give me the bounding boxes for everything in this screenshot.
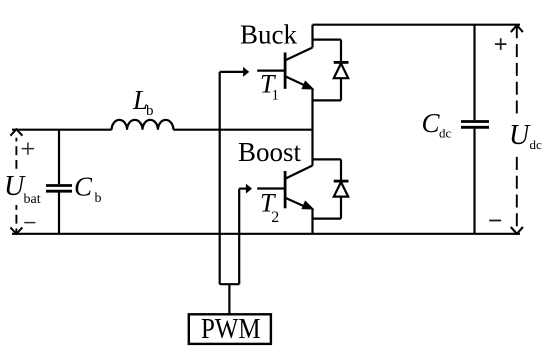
wire: PWM lead xyxy=(228,284,230,314)
T2 gate arrowhead xyxy=(246,184,252,194)
transistor Q1 (T1) emitter diagonal xyxy=(285,76,305,85)
PWM block box xyxy=(189,314,271,344)
wire: T2 gate arrow shaft xyxy=(239,188,246,190)
plus sign (dc link) xyxy=(495,38,507,50)
diode D1 cathode lead xyxy=(340,40,342,63)
wire: gate bus right (PWM to T2 gate) xyxy=(238,189,240,285)
transistor Q1 (T1) emitter arrowhead xyxy=(302,82,312,89)
node: DC-link voltage indicator dashed line (U_dc) xyxy=(516,25,518,234)
wire: T2 collector vertical xyxy=(311,130,313,166)
svg-text:Boost: Boost xyxy=(238,137,302,167)
minus sign (dc link) xyxy=(489,220,501,222)
U_dc indicator down arrowhead xyxy=(511,227,523,234)
transistor Q2 (T2) base bar xyxy=(284,171,287,208)
transistor Q1 (T1) collector diagonal xyxy=(285,48,312,61)
transistor Q2 (T2) emitter diagonal xyxy=(285,198,305,207)
svg-text:U: U xyxy=(509,120,531,151)
transistor Q1 (T1) base lead xyxy=(257,69,285,71)
wire: gate bus left (PWM to T1 gate) xyxy=(219,72,221,284)
diode D1 triangle xyxy=(334,63,348,78)
svg-text:1: 1 xyxy=(272,88,280,104)
svg-text:dc: dc xyxy=(530,137,543,152)
U_bat indicator up arrowhead xyxy=(10,129,22,136)
capacitor C2 (Cdc) plates xyxy=(461,122,489,128)
svg-text:2: 2 xyxy=(271,209,279,226)
wire: middle rail right segment (inductor to half-bridge midpoint) xyxy=(173,129,312,131)
wire: gate bus bottom connector xyxy=(220,283,240,285)
diode D2 bottom branch wire xyxy=(313,218,342,220)
diode D1 bottom branch wire xyxy=(313,99,342,101)
svg-text:Buck: Buck xyxy=(240,20,297,50)
diode D2 anode lead xyxy=(340,197,342,219)
svg-text:C: C xyxy=(422,108,441,138)
capacitor C1 (Cb) plates xyxy=(46,186,72,192)
wire: bottom rail (- bus) xyxy=(12,233,520,235)
capacitor C1 (Cb) bottom lead xyxy=(58,193,60,234)
wire: top rail (+ bus) xyxy=(313,24,521,26)
U_dc label background xyxy=(506,118,548,155)
capacitor C1 (Cb) top lead xyxy=(58,130,60,185)
transistor Q2 (T2) base lead xyxy=(257,187,285,189)
diode D2 cathode bar xyxy=(334,180,349,183)
U_bat indicator down arrowhead xyxy=(10,227,22,233)
svg-text:b: b xyxy=(146,103,154,119)
svg-text:PWM: PWM xyxy=(201,314,261,345)
transistor Q1 (T1) base bar xyxy=(284,53,287,89)
svg-text:dc: dc xyxy=(439,126,452,141)
capacitor C2 (Cdc) bottom lead xyxy=(473,129,475,234)
plus sign (battery) xyxy=(22,143,34,155)
diode D1 top branch wire xyxy=(313,38,342,40)
inductor L1 (Lb) winding xyxy=(112,120,174,130)
node: battery voltage indicator dashed line (U_bat) xyxy=(15,138,17,234)
U_bat label background xyxy=(2,172,43,205)
svg-text:bat: bat xyxy=(24,192,41,207)
wire: T1 collector vertical xyxy=(311,25,313,48)
diode D2 triangle xyxy=(334,182,348,197)
svg-text:C: C xyxy=(74,171,93,201)
diode D1 cathode bar xyxy=(334,61,349,64)
diode D2 cathode lead xyxy=(340,159,342,181)
capacitor C2 (Cdc) top lead xyxy=(473,25,475,121)
wire: middle rail left segment (battery + to inductor) xyxy=(12,129,112,131)
T1 gate arrowhead xyxy=(243,67,249,77)
transistor Q2 (T2) collector diagonal xyxy=(285,166,312,179)
wire: T2 emitter vertical xyxy=(311,209,313,234)
U_dc indicator up arrowhead xyxy=(511,25,523,32)
diode D2 top branch wire xyxy=(313,158,342,160)
wire: T1 gate arrow shaft xyxy=(220,71,244,73)
minus sign (battery) xyxy=(24,222,35,224)
transistor Q2 (T2) emitter arrowhead xyxy=(302,202,312,209)
wire: T1 emitter vertical xyxy=(311,89,313,130)
svg-text:b: b xyxy=(95,191,102,206)
diode D1 anode lead xyxy=(340,78,342,100)
